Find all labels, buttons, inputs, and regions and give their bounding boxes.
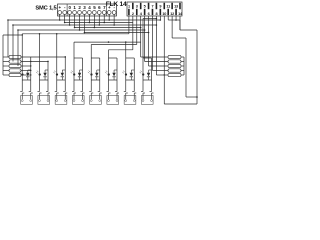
LED D6 indicator xyxy=(108,73,110,75)
wire channel 7 right leg xyxy=(133,58,135,91)
wire to right edge xyxy=(180,29,197,31)
wire channel 6 left leg xyxy=(108,58,110,91)
wire channel 5 riser xyxy=(90,45,92,59)
svg-text:4: 4 xyxy=(140,12,143,16)
wire channel 2 rail xyxy=(40,79,49,81)
wire corner x180 xyxy=(179,20,181,30)
resistor R10 xyxy=(156,74,168,76)
wire x186 vertical xyxy=(185,38,187,97)
svg-text:12: 12 xyxy=(170,12,174,16)
wire x186 feed xyxy=(172,37,186,39)
wire channel 3 riser xyxy=(56,34,58,91)
plug contact channel 8a xyxy=(142,91,144,92)
wire channel 8 right leg xyxy=(151,58,153,91)
terminal screws channel 4 xyxy=(73,100,75,102)
terminal block channel 1 xyxy=(21,96,33,105)
terminal block channel 7 xyxy=(124,96,136,105)
terminal block X1 screw terminals xyxy=(58,11,62,15)
wire corner feed R3 xyxy=(17,30,19,66)
svg-text:11: 11 xyxy=(166,4,170,8)
resistor R9 xyxy=(152,70,168,72)
terminal block channel 2 xyxy=(38,96,50,105)
LED D4 indicator xyxy=(73,73,75,75)
svg-text:4: 4 xyxy=(88,5,91,10)
wire bus a5 xyxy=(18,29,145,31)
wire channel 4 riser xyxy=(73,42,75,58)
wire stub X1 terminal 3 pos6 xyxy=(83,14,85,32)
svg-text:2: 2 xyxy=(132,12,134,16)
terminal screws channel 1 xyxy=(21,100,23,102)
resistor R7 xyxy=(145,61,168,63)
wire left feed bus xyxy=(3,34,22,36)
diode V6 xyxy=(113,70,115,73)
wire channel 1 rail xyxy=(22,79,31,81)
svg-text:1: 1 xyxy=(128,4,130,8)
terminal screws channel 2 xyxy=(39,100,41,102)
terminal screws channel 5 xyxy=(90,100,92,102)
plug contact channel 4a xyxy=(73,91,75,92)
resistor R2 xyxy=(3,61,9,63)
plug contact channel 1b xyxy=(30,91,32,92)
LED D2 indicator xyxy=(39,73,41,75)
resistor R3 xyxy=(3,65,9,67)
wire channel 6 rail xyxy=(109,79,118,81)
svg-text:8: 8 xyxy=(155,12,157,16)
svg-text:2: 2 xyxy=(78,5,81,10)
terminal screws channel 8 xyxy=(142,100,144,102)
plug contact channel 8b xyxy=(151,91,153,92)
wire channel 1 bus xyxy=(22,33,129,35)
wire corner feed R1 xyxy=(7,20,9,57)
wire stub X1 terminal + pos11 xyxy=(108,14,110,20)
terminal screws channel 6 xyxy=(108,100,110,102)
LED D7 indicator xyxy=(125,73,127,75)
terminal block channel 3 xyxy=(55,96,67,105)
terminal block X1 dividers xyxy=(66,4,68,16)
LED D8 indicator xyxy=(142,73,144,75)
wire stub X2 pin 7 xyxy=(151,16,153,71)
resistor R5 xyxy=(3,74,9,76)
plug contact channel 7b xyxy=(133,91,135,92)
LED D5 indicator xyxy=(90,73,92,75)
wire channel 8 left leg xyxy=(142,58,144,91)
wire channel 7 left leg xyxy=(125,58,127,91)
svg-text:9: 9 xyxy=(159,4,161,8)
terminal block channel 8 xyxy=(141,96,153,105)
wire channel 2 riser xyxy=(39,34,41,91)
wire stub X2 pin 6 xyxy=(148,16,150,66)
wire channel 5 rail xyxy=(91,79,100,81)
wire stub X2 pin 1 xyxy=(128,16,130,34)
plug contact channel 5a xyxy=(90,91,92,92)
wire channel 4 right leg xyxy=(82,58,84,91)
svg-text:+: + xyxy=(58,5,61,10)
wire stub X1 terminal 7 pos10 xyxy=(103,14,105,22)
terminal block channel 6 xyxy=(107,96,119,105)
wire channel 7 rail xyxy=(126,79,135,81)
wire channel 8 rail xyxy=(143,79,152,81)
diode V1 xyxy=(27,70,29,73)
plug contact channel 7a xyxy=(125,91,127,92)
diode V5 xyxy=(96,70,98,73)
plug contact channel 2b xyxy=(47,91,49,92)
terminal block channel 5 xyxy=(90,96,102,105)
plug contact channel 6b xyxy=(116,91,118,92)
wire channel 6 riser xyxy=(108,50,110,58)
wire stub X2 pin 14 xyxy=(179,16,181,30)
svg-text:6: 6 xyxy=(98,5,101,10)
resistor R6 xyxy=(141,56,168,58)
wire stub X1 terminal 0 pos3 xyxy=(69,14,71,25)
wire plus rail xyxy=(8,19,160,21)
svg-text:-: - xyxy=(64,5,66,10)
wire channel 4 bus xyxy=(74,41,141,43)
wire channel 4 left leg xyxy=(73,58,75,91)
wire x186 bottom jog xyxy=(186,96,197,98)
wire stub X2 pin 13 xyxy=(175,16,177,20)
wire stub X1 terminal 1 pos4 xyxy=(74,14,76,27)
wire bus a6 xyxy=(84,32,148,34)
wire right edge vertical xyxy=(196,30,198,104)
plug contact channel 5b xyxy=(99,91,101,92)
plug contact channel 3b xyxy=(64,91,66,92)
terminal screws channel 7 xyxy=(125,100,127,102)
junction dots on columns xyxy=(160,19,162,21)
svg-text:3: 3 xyxy=(136,4,138,8)
svg-text:1: 1 xyxy=(73,5,76,10)
diode V3 xyxy=(61,70,63,73)
LED D1 indicator xyxy=(21,73,23,75)
diode V4 xyxy=(79,70,81,73)
wire stub X1 terminal - pos2 xyxy=(64,14,66,22)
wire minus rail xyxy=(13,24,156,26)
plug contact channel 4b xyxy=(82,91,84,92)
terminal block X1 outline xyxy=(58,4,117,16)
svg-text:5: 5 xyxy=(93,5,96,10)
junction dot row5 on x164 column xyxy=(164,74,165,75)
wire right stack collector xyxy=(183,57,185,75)
wire stub X2 pin 11 xyxy=(167,16,169,20)
wire stub X2 pin 4 xyxy=(140,16,142,57)
wire channel 7 arch jumper xyxy=(126,57,135,59)
wire channel 2 right leg xyxy=(47,62,49,91)
svg-text:10: 10 xyxy=(162,12,166,16)
terminal block channel 4 xyxy=(72,96,84,105)
wire channel 5 left leg xyxy=(90,58,92,91)
plug contact channel 1a xyxy=(21,91,23,92)
resistor R1 xyxy=(3,56,9,58)
wire stub X2 pin 2 xyxy=(132,16,134,50)
svg-text:3: 3 xyxy=(83,5,86,10)
wire stub X1 terminal + pos1 xyxy=(59,14,61,20)
svg-text:5: 5 xyxy=(144,4,146,8)
svg-text:7: 7 xyxy=(152,4,154,8)
wire channel 5 bus xyxy=(91,44,137,46)
svg-text:6: 6 xyxy=(148,12,150,16)
wire channel 3 rail xyxy=(57,79,66,81)
wire stub X2 pin 12 xyxy=(171,16,173,38)
wire stub X2 pin 8 xyxy=(155,16,157,75)
wire stub X2 pin 10 xyxy=(163,16,165,104)
wire stub X1 terminal - pos12 xyxy=(113,14,115,25)
plug contact channel 2a xyxy=(39,91,41,92)
wire stub X1 terminal 5 pos8 xyxy=(93,14,95,27)
wire bus a2 xyxy=(65,22,133,24)
svg-text:SMC 1,5: SMC 1,5 xyxy=(35,6,57,12)
plug contact channel 3a xyxy=(56,91,58,92)
diode V2 xyxy=(44,70,46,73)
wire corner feed R2 xyxy=(12,25,14,62)
wire stub X2 pin 5 xyxy=(144,16,146,62)
wire stub X1 terminal 6 pos9 xyxy=(98,14,100,25)
wire stub X1 terminal 2 pos5 xyxy=(79,14,81,30)
plug contact channel 6a xyxy=(108,91,110,92)
wire stub X2 pin 3 xyxy=(136,16,138,45)
svg-text:0: 0 xyxy=(68,5,71,10)
wire channel 6 right leg xyxy=(116,58,118,91)
wire channel 5 right leg xyxy=(99,58,101,91)
wire channel 1 riser xyxy=(21,34,23,91)
wire channel 1 right leg joins R1-R5 xyxy=(30,57,32,91)
wire channel 4 rail xyxy=(74,79,83,81)
diode V7 xyxy=(130,70,132,73)
wire bus a4 xyxy=(75,27,141,29)
wire top right jog xyxy=(168,19,180,21)
wire channel 6 arch jumper xyxy=(109,57,118,59)
wire channel 6 bus xyxy=(109,49,133,51)
wire bottom right horizontal xyxy=(164,103,197,105)
LED D3 indicator xyxy=(56,73,58,75)
wire channel 4 arch jumper xyxy=(74,57,83,59)
diode V8 xyxy=(148,70,150,73)
wire channel 8 arch jumper xyxy=(143,57,152,59)
connector X2 FLK-14 outline xyxy=(127,2,182,16)
wire channel 3 right leg xyxy=(64,57,66,91)
wire channel 8 riser xyxy=(142,19,144,59)
wire channel 7 riser xyxy=(125,42,127,58)
svg-text:13: 13 xyxy=(174,4,178,8)
wire channel 5 arch jumper xyxy=(91,57,100,59)
resistor R4 xyxy=(3,70,9,72)
wire stub X1 terminal 4 pos7 xyxy=(88,14,90,22)
terminal screws channel 3 xyxy=(56,100,58,102)
wire channel 8 bus xyxy=(143,18,156,20)
wire left vertical feed R4 R5 xyxy=(2,35,4,75)
wire stub X2 pin 9 xyxy=(159,16,161,20)
resistor R8 xyxy=(149,65,168,67)
